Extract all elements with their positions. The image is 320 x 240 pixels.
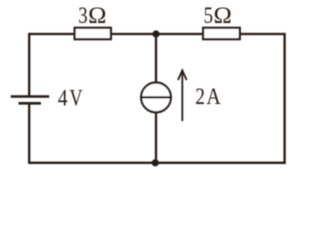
svg-text:Ω: Ω xyxy=(214,3,232,28)
wire middle branch upper (node to current source) xyxy=(155,34,157,83)
battery B1 short plate (negative) xyxy=(19,102,41,105)
current source I1 chord xyxy=(141,96,171,98)
current direction arrow shaft xyxy=(181,71,183,121)
label 2 A xyxy=(195,84,221,109)
label 4 V xyxy=(58,86,83,111)
resistor R2 5 ohm xyxy=(203,28,240,39)
wire right rail xyxy=(283,33,285,164)
svg-text:2: 2 xyxy=(195,84,205,109)
node dot top xyxy=(152,30,159,37)
svg-text:Ω: Ω xyxy=(88,3,106,28)
svg-text:5: 5 xyxy=(204,3,213,28)
wire top rail xyxy=(29,33,284,35)
svg-text:V: V xyxy=(70,86,83,111)
resistor R1 3 ohm xyxy=(75,28,111,39)
node dot bottom xyxy=(152,159,159,166)
wire left rail lower (from battery) xyxy=(28,103,30,163)
svg-text:3: 3 xyxy=(78,3,87,28)
label 5 ohm xyxy=(204,3,232,28)
svg-text:A: A xyxy=(206,84,221,109)
wire bottom rail xyxy=(28,162,286,164)
wire middle branch lower (current source to node) xyxy=(155,112,157,163)
current direction arrow head xyxy=(178,70,187,80)
current source I1 circle xyxy=(141,83,171,113)
battery B1 long plate (positive) xyxy=(11,95,49,97)
svg-text:4: 4 xyxy=(58,86,68,111)
wire left rail upper (to battery) xyxy=(28,33,30,97)
label 3 ohm xyxy=(78,3,106,28)
